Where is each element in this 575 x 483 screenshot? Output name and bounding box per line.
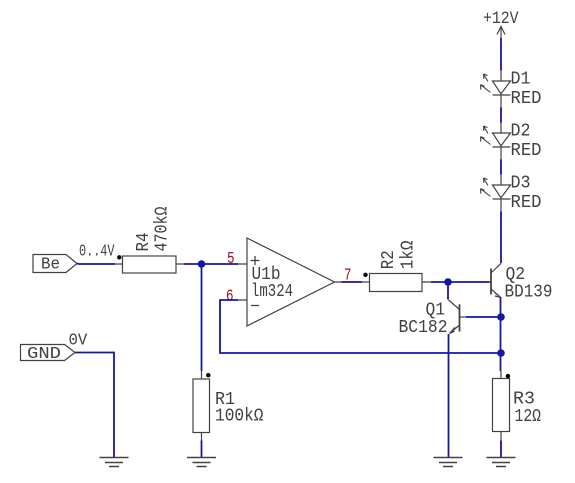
svg-text:100kΩ: 100kΩ	[215, 407, 264, 427]
LED D2	[481, 121, 542, 161]
wire R3 to ground	[500, 441, 502, 458]
svg-text:R2: R2	[379, 250, 399, 269]
transistor Q2	[491, 263, 553, 302]
ground under R1	[187, 458, 216, 467]
node junction R2/Q1 collector	[444, 278, 452, 286]
wire pin 7 to R2	[342, 281, 363, 283]
LED D1	[481, 69, 542, 109]
svg-text:1kΩ: 1kΩ	[399, 240, 419, 269]
svg-text:Be: Be	[41, 255, 60, 274]
resistor R4	[115, 206, 184, 273]
power arrow +12V	[497, 27, 505, 39]
svg-text:lm324: lm324	[251, 282, 293, 302]
svg-text:0V: 0V	[69, 332, 89, 351]
wire junction down to R1	[201, 264, 203, 371]
ground under Q1 emitter	[434, 458, 463, 467]
svg-text:470kΩ: 470kΩ	[153, 206, 173, 251]
transistor Q1	[399, 300, 467, 338]
wire pin 6 feedback	[220, 300, 501, 353]
node junction Q1 base / Q2 emitter	[497, 313, 505, 321]
resistor R1	[193, 371, 264, 441]
svg-text:D2: D2	[511, 121, 531, 141]
svg-text:BD139: BD139	[505, 283, 553, 303]
resistor R2	[362, 240, 431, 291]
svg-text:RED: RED	[511, 89, 542, 109]
wire D1 to D2	[500, 108, 502, 123]
ground under R3	[487, 458, 516, 467]
wire D2 to D3	[500, 160, 502, 175]
svg-text:R4: R4	[134, 233, 154, 252]
resistor R3	[493, 371, 542, 441]
svg-text:BC182: BC182	[399, 318, 448, 338]
connector Be	[33, 255, 77, 274]
connector GND	[21, 344, 76, 363]
wire Q1 emitter to ground	[448, 334, 450, 458]
wire Q2 emitter down to R3	[500, 297, 502, 371]
wire GND to ground	[75, 353, 114, 458]
wire junction down to Q1 collector	[447, 282, 449, 300]
node junction feedback/R3	[497, 349, 505, 357]
svg-text:D3: D3	[511, 173, 531, 193]
svg-text:RED: RED	[511, 193, 542, 213]
wire R1 to ground	[201, 441, 203, 458]
wire Be to R4	[77, 263, 115, 266]
wire Q1 base to Q2 emitter net	[466, 316, 501, 318]
svg-text:D1: D1	[511, 69, 531, 89]
wire R4 to op-amp pin 5	[184, 263, 238, 265]
wire +12V to D1	[500, 38, 502, 71]
svg-text:5: 5	[227, 250, 235, 269]
svg-text:GND: GND	[27, 344, 61, 363]
op-amp U1b	[238, 238, 342, 326]
svg-text:12Ω: 12Ω	[515, 407, 542, 427]
wire D3 to Q2 collector	[500, 212, 502, 264]
LED D3	[481, 173, 542, 213]
svg-text:RED: RED	[511, 141, 542, 161]
ground for GND connector	[100, 458, 129, 467]
svg-text:0..4V: 0..4V	[79, 243, 115, 262]
svg-text:6: 6	[226, 288, 234, 307]
node junction R4/R1/opamp	[198, 260, 206, 268]
wire R2 to Q2 base	[431, 281, 489, 283]
